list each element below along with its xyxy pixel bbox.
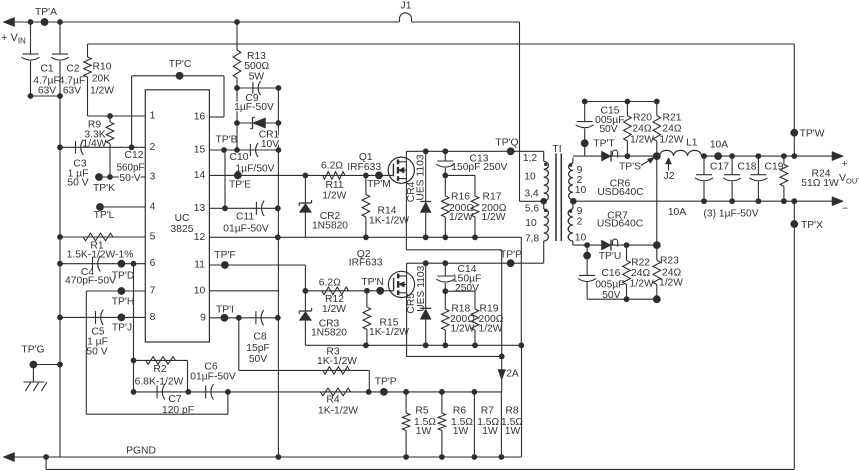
svg-text:15pF: 15pF: [246, 343, 269, 354]
svg-text:6: 6: [150, 258, 156, 269]
svg-text:1/2W: 1/2W: [630, 279, 654, 290]
svg-text:TP'X: TP'X: [801, 220, 823, 231]
svg-text:1/2W: 1/2W: [478, 324, 502, 335]
svg-text:C11: C11: [236, 212, 254, 223]
svg-text:1N5820: 1N5820: [311, 327, 347, 338]
svg-text:C1: C1: [40, 64, 53, 75]
svg-text:63V: 63V: [38, 86, 56, 97]
svg-text:50 V: 50 V: [86, 347, 107, 358]
svg-text:10A: 10A: [668, 207, 686, 218]
svg-text:L1: L1: [686, 138, 698, 149]
svg-text:5,6: 5,6: [525, 204, 540, 215]
svg-text:TP'D: TP'D: [112, 271, 135, 282]
svg-text:1/2W: 1/2W: [90, 86, 114, 97]
svg-text:10: 10: [525, 218, 537, 229]
svg-text:1N5820: 1N5820: [312, 220, 348, 231]
svg-text:6.2Ω: 6.2Ω: [321, 161, 343, 172]
svg-text:1K-1/2W: 1K-1/2W: [369, 327, 409, 338]
svg-text:−: −: [842, 203, 848, 214]
svg-text:1.5K-1/2W-1%: 1.5K-1/2W-1%: [67, 250, 134, 261]
svg-text:R8: R8: [505, 406, 518, 417]
svg-text:TP'W: TP'W: [800, 129, 825, 140]
svg-text:TP'P: TP'P: [375, 377, 397, 388]
svg-text:4: 4: [150, 202, 156, 213]
svg-text:10: 10: [575, 185, 587, 196]
svg-text:5: 5: [150, 232, 156, 243]
svg-text:UES 1103: UES 1103: [415, 154, 426, 200]
svg-text:R23: R23: [660, 256, 679, 267]
svg-text:10: 10: [194, 285, 206, 296]
svg-text:10A: 10A: [710, 140, 728, 151]
svg-text:3,4: 3,4: [524, 189, 539, 200]
svg-text:C19: C19: [765, 161, 784, 172]
svg-text:3825: 3825: [171, 224, 194, 235]
svg-text:120 pF: 120 pF: [162, 405, 194, 416]
svg-text:PGND: PGND: [126, 446, 156, 457]
svg-text:TP'G: TP'G: [21, 345, 44, 356]
svg-text:63V: 63V: [63, 86, 81, 97]
svg-text:9: 9: [577, 206, 583, 217]
svg-text:R16: R16: [451, 192, 470, 203]
svg-text:1K-1/2W: 1K-1/2W: [317, 356, 357, 367]
svg-text:TP'L: TP'L: [94, 210, 115, 221]
svg-text:TP'F: TP'F: [214, 250, 235, 261]
svg-text:2: 2: [150, 142, 156, 153]
svg-text:1K-1/2W: 1K-1/2W: [369, 216, 409, 227]
svg-text:TP'H: TP'H: [112, 297, 135, 308]
svg-text:2: 2: [577, 217, 583, 228]
svg-text:20K: 20K: [92, 74, 110, 85]
svg-text:C18: C18: [738, 161, 757, 172]
svg-text:TP'Q: TP'Q: [495, 138, 518, 149]
svg-text:7,8: 7,8: [525, 234, 540, 245]
svg-text:10: 10: [524, 172, 536, 183]
svg-text:7: 7: [150, 286, 156, 297]
svg-text:1/2W: 1/2W: [659, 278, 683, 289]
svg-text:TP'T: TP'T: [593, 139, 615, 150]
svg-text:+: +: [841, 159, 847, 170]
svg-text:TP'B: TP'B: [216, 134, 238, 145]
svg-text:TP'U: TP'U: [599, 251, 622, 262]
svg-text:1W: 1W: [505, 426, 521, 437]
svg-text:1/2W: 1/2W: [481, 212, 505, 223]
svg-text:1: 1: [150, 111, 156, 122]
svg-text:3: 3: [150, 172, 156, 183]
svg-text:TP'E: TP'E: [229, 180, 251, 191]
svg-text:50 V: 50 V: [119, 173, 140, 184]
svg-text:6.8K-1/2W: 6.8K-1/2W: [135, 377, 184, 388]
svg-text:12: 12: [194, 232, 206, 243]
svg-text:C17: C17: [710, 161, 729, 172]
svg-text:005µF: 005µF: [595, 280, 624, 291]
svg-text:C10: C10: [230, 152, 249, 163]
svg-text:1/4W: 1/4W: [82, 139, 106, 150]
svg-text:5W: 5W: [249, 72, 265, 83]
svg-text:150pF 250V: 150pF 250V: [451, 162, 507, 173]
svg-text:1,2: 1,2: [523, 153, 538, 164]
svg-text:1µF/50V: 1µF/50V: [235, 163, 274, 174]
svg-text:1/2W: 1/2W: [659, 135, 683, 146]
svg-text:TP'I: TP'I: [216, 305, 234, 316]
svg-text:R10: R10: [93, 62, 112, 73]
svg-text:50V: 50V: [599, 124, 617, 135]
svg-text:UC: UC: [175, 213, 190, 224]
svg-text:IRF633: IRF633: [349, 257, 383, 268]
svg-text:TP'M: TP'M: [367, 179, 391, 190]
svg-text:UES 1103: UES 1103: [416, 265, 427, 311]
svg-text:R2: R2: [153, 364, 166, 375]
svg-text:15: 15: [194, 145, 206, 156]
svg-text:560pF: 560pF: [117, 163, 145, 174]
svg-text:24Ω: 24Ω: [662, 124, 681, 135]
svg-text:1/2W: 1/2W: [450, 324, 474, 335]
svg-text:R17: R17: [483, 192, 502, 203]
svg-text:TI: TI: [552, 144, 561, 155]
svg-text:10: 10: [575, 232, 587, 243]
svg-text:C7: C7: [168, 394, 181, 405]
svg-text:2A: 2A: [506, 369, 519, 380]
svg-text:TP'N: TP'N: [361, 277, 384, 288]
svg-text:IRF633: IRF633: [347, 162, 381, 173]
svg-text:TP'C: TP'C: [169, 59, 192, 70]
svg-text:1/2W: 1/2W: [449, 212, 473, 223]
svg-text:J2: J2: [664, 171, 675, 182]
svg-text:50V: 50V: [602, 290, 620, 301]
svg-text:13: 13: [194, 203, 206, 214]
svg-text:250V: 250V: [455, 283, 479, 294]
svg-text:50V: 50V: [249, 354, 267, 365]
svg-text:USD640C: USD640C: [597, 187, 644, 198]
svg-text:1W: 1W: [482, 426, 498, 437]
svg-text:R5: R5: [415, 406, 428, 417]
svg-text:R20: R20: [633, 113, 652, 124]
svg-text:R21: R21: [663, 113, 682, 124]
svg-text:C12: C12: [125, 150, 144, 161]
svg-text:USD640C: USD640C: [597, 219, 644, 230]
svg-text:(3) 1µF-50V: (3) 1µF-50V: [703, 209, 758, 220]
svg-text:6.2Ω: 6.2Ω: [319, 278, 341, 289]
svg-text:51Ω 1W: 51Ω 1W: [801, 178, 839, 189]
svg-text:01µF-50V: 01µF-50V: [223, 224, 269, 235]
svg-text:1µF-50V: 1µF-50V: [234, 102, 274, 113]
svg-text:C8: C8: [253, 332, 266, 343]
svg-text:1W: 1W: [416, 426, 432, 437]
svg-text:C2: C2: [66, 64, 79, 75]
svg-text:1/2W: 1/2W: [322, 304, 346, 315]
svg-text:10V: 10V: [261, 139, 279, 150]
svg-text:TP'S: TP'S: [619, 162, 641, 173]
svg-text:01µF-50V: 01µF-50V: [190, 372, 236, 383]
svg-text:470pF-50V: 470pF-50V: [65, 276, 116, 287]
svg-text:TP'P: TP'P: [500, 250, 522, 261]
svg-text:R18: R18: [451, 304, 470, 315]
svg-text:TP'J: TP'J: [112, 323, 132, 334]
svg-text:1K-1/2W: 1K-1/2W: [318, 406, 358, 417]
svg-text:24Ω: 24Ω: [632, 124, 651, 135]
svg-text:R19: R19: [480, 304, 499, 315]
svg-text:11: 11: [194, 260, 205, 271]
svg-text:TP'K: TP'K: [93, 183, 115, 194]
svg-text:J1: J1: [401, 0, 412, 11]
svg-text:R4: R4: [326, 395, 339, 406]
svg-text:50 V: 50 V: [67, 178, 88, 189]
svg-text:16: 16: [194, 112, 206, 123]
svg-text:1/2W: 1/2W: [322, 190, 346, 201]
svg-text:24Ω: 24Ω: [631, 268, 650, 279]
svg-text:9: 9: [200, 312, 206, 323]
svg-text:TP'A: TP'A: [35, 7, 57, 18]
svg-text:1/2W: 1/2W: [630, 135, 654, 146]
svg-text:R6: R6: [453, 406, 466, 417]
svg-text:8: 8: [150, 312, 156, 323]
svg-text:R7: R7: [481, 406, 494, 417]
svg-text:14: 14: [194, 170, 206, 181]
svg-text:C16: C16: [601, 268, 620, 279]
svg-text:1W: 1W: [453, 426, 469, 437]
